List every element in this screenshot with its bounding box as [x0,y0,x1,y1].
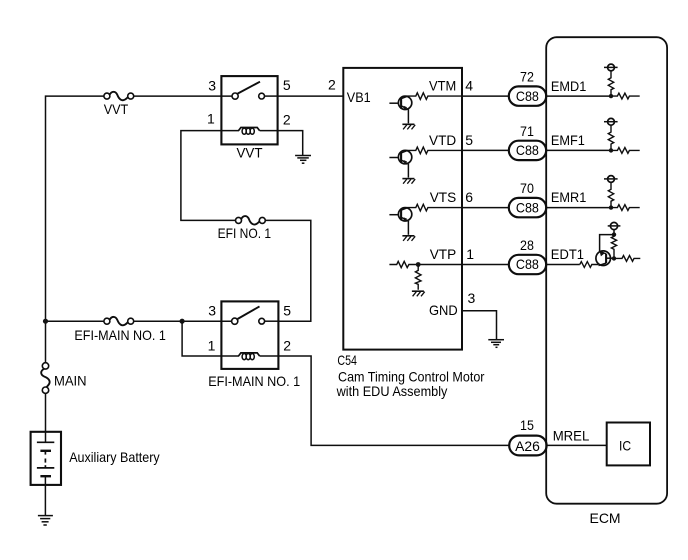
svg-text:3: 3 [468,290,476,306]
resistor VTP vertical [415,265,421,290]
rows C54 to ECM [462,86,611,455]
IC box [607,423,650,466]
resistor EDT1 base [580,262,598,268]
svg-text:VTS: VTS [430,189,457,205]
svg-text:EMR1: EMR1 [551,189,587,205]
wire VTS to C88 [462,207,509,209]
pull-up network EMD1 [604,64,640,99]
svg-text:15: 15 [520,417,534,433]
junction node battery rail [43,319,48,324]
chassis ground VTM [402,124,415,129]
svg-text:1: 1 [208,337,216,353]
battery box [31,432,61,485]
svg-text:2: 2 [283,337,291,353]
wire GND pin3 [462,311,497,340]
junction node relay feed [180,319,185,324]
svg-text:28: 28 [520,237,534,253]
svg-text:with EDU Assembly: with EDU Assembly [336,383,448,399]
svg-text:2: 2 [283,111,291,127]
wire relay VVT pin5 to C54 [278,95,344,97]
resistor EDT1 right [614,256,640,262]
fuse EFI-MAIN NO.1 [104,317,134,325]
transistor Q EDT1 [596,251,611,266]
svg-text:1: 1 [466,246,474,262]
svg-text:72: 72 [520,69,534,85]
transistor Q VTS [389,208,411,235]
svg-text:C88: C88 [516,199,539,215]
svg-text:C88: C88 [516,88,539,104]
svg-text:3: 3 [208,303,216,319]
svg-text:C88: C88 [516,256,539,272]
resistor VTP horizontal [389,261,462,267]
resistor EDT1 vertical [611,235,616,259]
fuse VVT [104,92,134,100]
svg-text:3: 3 [208,77,216,93]
wire battery rail to relay EFI-MAIN [46,320,105,322]
connector C88 pin70 [509,198,546,217]
wire junction to relay EFI-MAIN pin1 [182,321,221,356]
wire fuse VVT to relay VVT [134,95,232,97]
svg-text:VB1: VB1 [347,89,371,105]
svg-text:EFI-MAIN NO. 1: EFI-MAIN NO. 1 [74,327,166,343]
wire battery to ground [44,476,46,515]
wire C88 to EMD1 node [546,95,611,97]
transistor Q VTM [389,96,411,123]
ground relay VVT [295,156,311,164]
wire fuse EFI NO.1 to relay EFI-MAIN pin5 [265,220,311,321]
svg-text:VTD: VTD [429,132,456,148]
relay EFI-MAIN switch [232,306,278,324]
C54 internals [389,93,504,347]
svg-text:VTM: VTM [429,78,456,94]
svg-text:VVT: VVT [104,101,129,117]
svg-text:EMF1: EMF1 [551,132,585,148]
junction node EDT1 bottom [612,256,616,260]
relay EFI-MAIN coil [221,353,278,360]
relay VVT coil [221,128,277,135]
wire VTD to C88 [462,149,509,151]
svg-text:VVT: VVT [237,145,263,161]
svg-text:4: 4 [465,78,473,94]
chassis ground VTS [402,236,415,241]
wire VTM to C88 [462,95,509,97]
pull-up network EMF1 [604,118,640,153]
wire C88 to EMF1 node [546,149,611,151]
svg-text:5: 5 [465,132,473,148]
wire relay VVT pin2 to ground [278,131,303,156]
wire rail below MAIN link [45,393,47,442]
svg-text:IC: IC [619,437,631,453]
svg-text:C54: C54 [337,352,357,368]
pull-up network EMR1 [604,176,640,211]
svg-text:C88: C88 [516,142,539,158]
battery cells [37,442,54,476]
svg-text:ECM: ECM [590,510,621,526]
svg-text:71: 71 [520,123,534,139]
junction node VTP [416,262,421,267]
svg-text:MREL: MREL [553,427,590,443]
junction node EDT1 top [612,232,616,236]
svg-text:EMD1: EMD1 [551,78,587,94]
transistor Q VTD [389,150,411,177]
wire EDT1 collector [600,235,614,252]
C54 box [343,68,462,350]
wire relay EFI-MAIN pin2 to A26 [278,356,509,445]
resistor VTM [407,93,462,100]
svg-text:VTP: VTP [430,246,457,262]
svg-text:GND: GND [429,302,458,318]
fusible link MAIN [41,363,49,394]
ECM box [546,37,667,504]
connector A26 pin15 [509,436,546,456]
EDT1 driver network [580,222,641,267]
svg-text:EFI NO. 1: EFI NO. 1 [218,225,272,241]
ground battery [38,516,53,525]
svg-text:5: 5 [283,303,291,319]
connector C88 pin71 [509,141,546,160]
svg-text:1: 1 [207,111,215,127]
svg-text:70: 70 [520,180,534,196]
svg-text:MAIN: MAIN [54,372,87,388]
svg-text:6: 6 [465,189,473,205]
wire VTP to C88 [462,264,509,266]
relay VVT switch [232,82,278,100]
fuse EFI NO.1 [236,216,266,224]
svg-text:2: 2 [328,77,336,93]
ground C54 GND [488,340,504,348]
svg-text:A26: A26 [515,438,540,454]
svg-text:Auxiliary Battery: Auxiliary Battery [69,449,160,465]
connector C88 pin72 [509,86,546,105]
svg-text:5: 5 [283,77,291,93]
pull-up circle EDT1 [610,222,617,229]
wire left rail [46,96,105,363]
svg-text:EFI-MAIN NO. 1: EFI-MAIN NO. 1 [208,373,300,389]
relay EFI-MAIN box [221,301,278,369]
wire relay VVT pin1 to fuse EFI NO.1 [181,131,236,221]
wire fuse EFI-MAIN to relay pin3 [134,320,232,322]
connector C88 pin28 [509,255,546,274]
relay VVT box [221,76,277,144]
resistor VTS [407,204,462,211]
wire A26 to IC [547,444,607,446]
ECM [546,37,667,504]
chassis ground VTD [402,179,415,184]
wire C88 to EDT1 resistor [546,264,580,266]
svg-text:EDT1: EDT1 [551,246,584,262]
chassis ground VTP [412,291,425,296]
wire C88 to EMR1 node [546,207,611,209]
resistor VTD [407,147,462,154]
svg-text:Cam Timing Control Motor: Cam Timing Control Motor [338,368,485,384]
